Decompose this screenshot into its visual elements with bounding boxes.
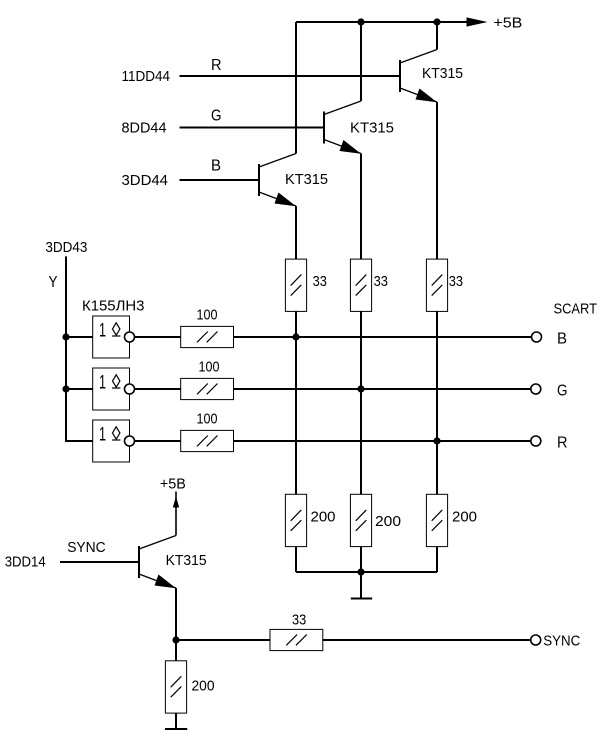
wire: Y to gate U1.2 input: [66, 388, 93, 390]
wire: VT1 emitter down: [295, 206, 297, 259]
node: B row / column B: [292, 333, 299, 340]
svg-text:200: 200: [192, 678, 215, 695]
ground (sync): [165, 713, 187, 729]
terminal: SYNC output: [531, 635, 541, 645]
wire: Y to gate U1.1 input: [66, 336, 93, 338]
resistor 33 (sync): [270, 612, 323, 651]
svg-text:KT315: KT315: [166, 552, 207, 569]
wire: U1.1 out: [135, 336, 181, 338]
wire: +5V supply rail: [296, 21, 471, 23]
wire: column G to common: [360, 547, 362, 572]
svg-text:B: B: [557, 331, 567, 348]
wire: sync row right: [323, 639, 531, 641]
inverter U1.3 (open collector): [93, 420, 135, 462]
transistor VT1 KT315 (B channel): [259, 154, 296, 207]
wire: VT3 emitter down: [436, 102, 438, 259]
wire: R output row: [234, 440, 531, 442]
inverter U1.2 (open collector): [93, 368, 135, 410]
resistor 200 (G column): [350, 494, 401, 546]
resistor 100 (B row): [181, 307, 234, 348]
svg-text:33: 33: [449, 273, 463, 290]
resistor 100 (G row): [181, 359, 234, 400]
wire: column B mid: [295, 311, 297, 494]
node: Y to gate U1.1: [62, 333, 69, 340]
transistor VT4 KT315 (sync): [139, 536, 176, 589]
transistor VT3 KT315 (R channel): [400, 50, 437, 103]
wire: VT2 emitter down: [360, 154, 362, 260]
+5B power arrow: [467, 17, 488, 26]
resistor 33 (R emitter): [426, 259, 463, 311]
resistor 200 (R column): [426, 494, 477, 546]
wire: column B to common: [295, 547, 297, 572]
svg-text:1: 1: [99, 373, 106, 394]
svg-text:G: G: [557, 383, 568, 400]
terminal: SCART R: [531, 436, 541, 446]
node: R row / column R: [433, 437, 440, 444]
wire: B output row: [234, 336, 532, 338]
svg-text:3DD44: 3DD44: [122, 172, 169, 189]
transistor VT2 KT315 (G channel): [324, 101, 361, 154]
wire: B input line: [180, 179, 260, 181]
wire: column R to common: [436, 547, 438, 572]
svg-text:3DD43: 3DD43: [45, 239, 87, 256]
node: rail / green collector junction: [357, 18, 364, 25]
terminal: SCART B: [532, 332, 542, 342]
svg-text:KT315: KT315: [285, 171, 328, 188]
svg-text:200: 200: [311, 509, 336, 526]
svg-text:B: B: [211, 158, 221, 175]
wire: VT3 collector to rail: [436, 22, 438, 50]
wire: sync collector to +5V: [175, 492, 177, 536]
resistor 33 (G emitter): [350, 259, 388, 311]
svg-text:+5B: +5B: [160, 476, 186, 493]
wire: column G mid: [360, 311, 362, 494]
resistor 100 (R row): [181, 411, 234, 452]
ground (main): [351, 572, 372, 599]
wire: sync row left: [176, 639, 270, 641]
svg-text:100: 100: [197, 411, 218, 428]
wire: Y input vertical: [66, 256, 93, 441]
svg-text:SYNC: SYNC: [543, 633, 580, 650]
svg-text:8DD44: 8DD44: [122, 120, 167, 137]
wire: G output row: [234, 388, 531, 390]
wire: SYNC input line: [60, 561, 139, 563]
terminal: SCART G: [531, 384, 541, 394]
node: Y to gate U1.2: [62, 385, 69, 392]
node: G row / column G: [357, 385, 364, 392]
svg-text:R: R: [557, 435, 568, 452]
node: common / ground: [357, 568, 364, 575]
svg-text:11DD44: 11DD44: [122, 68, 171, 85]
svg-text:Y: Y: [49, 274, 58, 291]
wire: VT1 collector to rail: [295, 22, 297, 154]
node: rail / red collector junction: [433, 18, 440, 25]
node: sync emitter junction: [172, 636, 179, 643]
svg-text:KT315: KT315: [350, 120, 394, 137]
wire: common bottom line: [296, 571, 437, 573]
resistor 33 (B emitter): [285, 259, 327, 311]
wire: VT2 collector to rail: [360, 22, 362, 101]
wire: VT4 emitter down: [175, 588, 177, 661]
svg-text:200: 200: [452, 509, 477, 526]
svg-text:SCART: SCART: [554, 301, 598, 318]
svg-text:200: 200: [375, 513, 401, 530]
svg-text:33: 33: [374, 273, 388, 290]
wire: U1.3 out: [135, 440, 181, 442]
svg-text:KT315: KT315: [422, 65, 463, 82]
wire: U1.2 out: [135, 388, 181, 390]
svg-text:100: 100: [199, 359, 220, 376]
svg-text:33: 33: [313, 273, 327, 290]
svg-text:1: 1: [99, 425, 106, 446]
svg-text:1: 1: [99, 321, 106, 342]
svg-text:100: 100: [197, 307, 218, 324]
svg-text:R: R: [211, 57, 222, 74]
resistor 200 (sync): [165, 661, 214, 713]
svg-text:+5B: +5B: [493, 15, 522, 32]
svg-text:SYNC: SYNC: [67, 539, 106, 556]
inverter U1.1 (open collector): [93, 316, 135, 358]
svg-text:К155ЛН3: К155ЛН3: [82, 298, 145, 315]
svg-text:33: 33: [292, 612, 306, 629]
svg-text:G: G: [211, 108, 222, 125]
svg-text:3DD14: 3DD14: [5, 554, 46, 571]
wire: column R mid: [436, 311, 438, 494]
resistor 200 (B column): [285, 494, 335, 546]
wire: R input line: [180, 75, 401, 77]
+5B power arrow (sync): [173, 497, 179, 508]
wire: G input line: [180, 127, 325, 129]
